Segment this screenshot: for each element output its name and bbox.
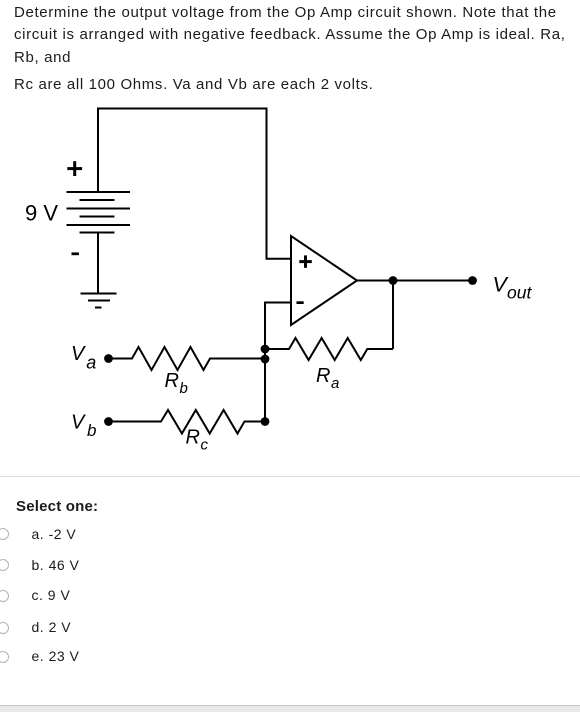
svg-text:a: a <box>331 375 339 392</box>
svg-text:V: V <box>71 412 86 434</box>
radio a <box>0 528 9 540</box>
wire inverting input <box>265 303 290 422</box>
op-amp U1 <box>291 236 357 325</box>
svg-text:9 V: 9 V <box>25 200 58 225</box>
svg-text:R: R <box>165 370 179 392</box>
node A upper junction dot <box>261 345 270 354</box>
node dot Vb input <box>104 417 113 426</box>
radio b <box>0 559 9 571</box>
node dot Va input <box>104 354 113 363</box>
svg-text:b: b <box>180 380 188 397</box>
node dot Rc junction <box>261 417 270 426</box>
wire top loop from battery + to op-amp noninverting input <box>98 109 290 259</box>
wire feedback from output node down to Ra <box>392 281 394 350</box>
svg-text:b: b <box>87 421 96 440</box>
wire battery negative to ground <box>97 233 99 294</box>
radio c <box>0 590 9 602</box>
node A lower junction dot <box>261 355 270 364</box>
battery B1 9V plates <box>67 192 131 233</box>
svg-text:out: out <box>507 283 532 303</box>
label - (op-amp inverting) <box>297 301 304 304</box>
label + (op-amp noninverting) <box>299 255 312 267</box>
radio e <box>0 651 9 663</box>
resistor Ra <box>265 338 393 360</box>
label - (battery negative) <box>72 252 79 255</box>
svg-text:R: R <box>316 365 330 387</box>
svg-text:R: R <box>186 427 200 449</box>
separator line above answers <box>0 476 580 477</box>
resistor Rc <box>109 410 266 434</box>
resistor Rb <box>109 347 266 370</box>
label + (battery positive) <box>67 161 82 176</box>
wire output to Vout <box>357 280 473 282</box>
svg-text:V: V <box>71 343 86 365</box>
ground <box>81 294 117 308</box>
svg-text:a: a <box>86 353 96 373</box>
node dot output junction <box>389 276 398 285</box>
bottom bar <box>0 705 580 707</box>
node dot Vout terminal <box>468 276 477 285</box>
radio d <box>0 622 9 634</box>
svg-text:c: c <box>201 437 209 454</box>
